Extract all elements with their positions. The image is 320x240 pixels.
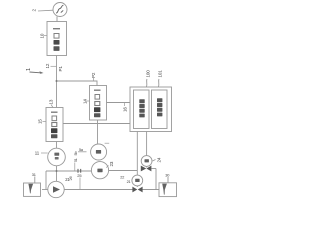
svg-text:15: 15 [38, 119, 43, 124]
wire box bottom x146.6 down [146, 132, 148, 156]
leader line to label 2 [38, 9, 53, 12]
tick label 10 [44, 35, 47, 37]
svg-text:11: 11 [35, 151, 40, 156]
circle 24 [141, 156, 152, 167]
wire circle11 down to pump [56, 166, 58, 182]
svg-text:5b: 5b [73, 150, 78, 155]
tick label 12 [51, 65, 57, 67]
glyph in circle 11 [54, 153, 59, 156]
wire box bottom x137 down [136, 132, 138, 176]
circle 11 [48, 148, 66, 166]
svg-text:51: 51 [74, 158, 78, 162]
valve 21 bowtie [132, 187, 142, 193]
tick label 23 [106, 165, 108, 167]
svg-text:31: 31 [32, 172, 36, 177]
glyph in generator: wave [56, 5, 63, 13]
box 12 (left unit) [46, 108, 63, 142]
wire valve24 right to riser [152, 168, 157, 170]
svg-text:100: 100 [146, 70, 151, 78]
control outer box [130, 87, 172, 132]
wire pump to valve [64, 189, 132, 191]
tick label 14 [86, 100, 90, 102]
wire left drop x46 [45, 171, 47, 190]
wire tank to pump [42, 189, 48, 191]
flow arrow near 5a [78, 151, 87, 153]
circle 23 bottom [91, 162, 108, 179]
box 10 [47, 22, 67, 56]
tick label 25 [79, 178, 81, 190]
glyph in circle 21b [135, 179, 139, 182]
circle 23 top [91, 144, 107, 160]
arrow 1 [30, 71, 43, 74]
svg-text:1: 1 [26, 68, 32, 71]
tick label 11 [41, 152, 48, 154]
wire circle to box 10 [56, 16, 58, 21]
tank right [159, 183, 177, 197]
tick crossing pipe b [80, 169, 82, 173]
wire valve to tank right [143, 189, 160, 191]
svg-text:24: 24 [157, 157, 162, 162]
tank right stem [167, 177, 169, 183]
wire box12 to circle 11 [56, 142, 58, 149]
glyph in circle 23b [97, 169, 102, 173]
tick label 13a [51, 105, 53, 108]
tank left [24, 183, 41, 196]
junction dot2 [56, 170, 58, 172]
glyph in circle 24 [145, 159, 149, 162]
wire trunk box10 to box12 [56, 56, 58, 108]
tick crossing pipe a [77, 169, 79, 173]
pump triangle [53, 186, 60, 193]
wire L1 boxB to control box [107, 102, 131, 104]
glyph in circle 23 [96, 150, 101, 154]
svg-text:30: 30 [165, 173, 170, 178]
control inner box 101 [152, 90, 168, 129]
text blobs box10 [53, 28, 60, 51]
text blobs box101 [157, 98, 162, 116]
svg-text:2: 2 [32, 9, 37, 12]
text blobs box14 [94, 90, 101, 118]
svg-text:10: 10 [40, 33, 45, 38]
wire boxB to heat circle [97, 120, 99, 144]
leader squiggle 100 [145, 79, 148, 87]
wire L2 box12 to control box [63, 123, 130, 125]
tick label 15 [43, 121, 47, 123]
svg-text:21: 21 [127, 179, 131, 184]
tick label 16 [124, 103, 126, 107]
text blobs box12 [51, 112, 58, 139]
labels rotated [26, 9, 170, 185]
svg-text:P2: P2 [91, 72, 96, 78]
junction dot [56, 80, 58, 82]
text blobs box100 [139, 99, 144, 117]
wire horizontal y171 [46, 170, 92, 172]
tank left funnel [28, 184, 33, 194]
tick label 5 [74, 163, 76, 172]
tick label 24 [153, 160, 156, 162]
svg-text:P1: P1 [58, 66, 63, 72]
tank right funnel [162, 184, 167, 195]
valve 24 bowtie [141, 166, 152, 172]
stub circle24 to valve24 [146, 166, 148, 167]
svg-text:23: 23 [109, 161, 114, 166]
svg-text:14: 14 [83, 99, 88, 104]
svg-text:5a: 5a [79, 148, 84, 152]
tick label P2 [93, 78, 95, 81]
control inner box 100 [134, 90, 150, 129]
svg-text:101: 101 [158, 70, 163, 78]
svg-text:13: 13 [49, 99, 54, 104]
generator circle 2 [53, 3, 67, 17]
wire circle to x137 [109, 170, 138, 172]
svg-text:22: 22 [120, 175, 124, 179]
leader squiggle 101 [157, 79, 160, 87]
svg-text:12: 12 [45, 63, 50, 68]
wire branch P2 [57, 81, 98, 86]
svg-text:25: 25 [77, 173, 82, 178]
pump 21 circle [48, 181, 64, 197]
svg-text:16: 16 [123, 107, 128, 112]
stub circle21 to valve21 [136, 186, 138, 187]
wire riser x156 [155, 169, 157, 190]
box 14 (P2 unit) [90, 86, 107, 121]
circle 21b [132, 175, 143, 186]
tick label 21b [105, 142, 110, 144]
tank left stem [34, 177, 36, 184]
